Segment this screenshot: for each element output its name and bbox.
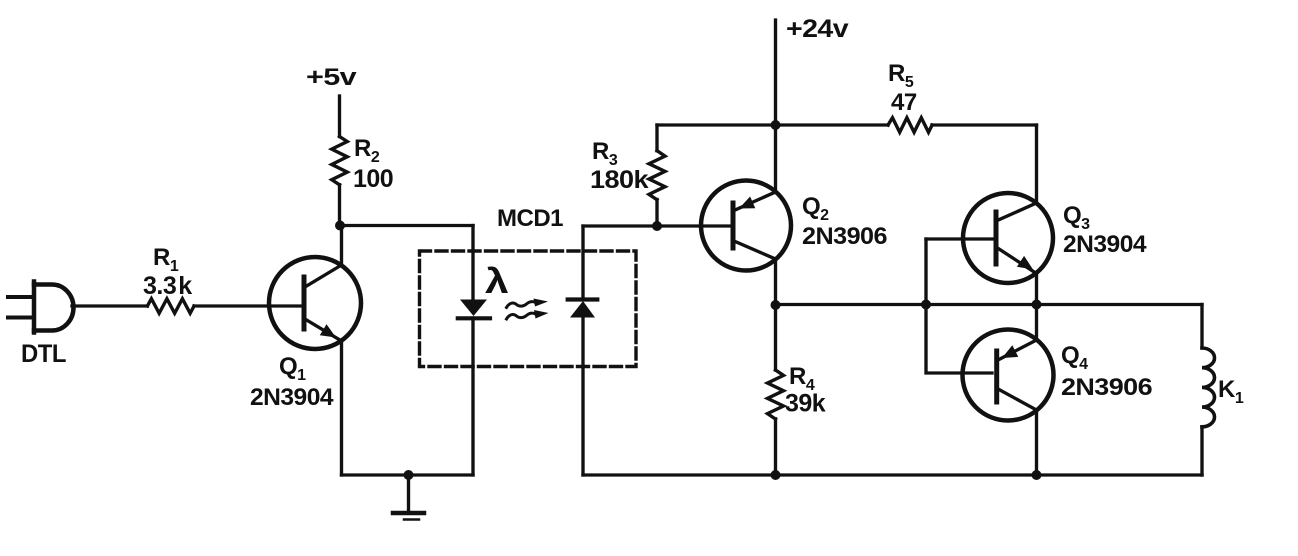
svg-text:2N3906: 2N3906 [802,223,887,250]
svg-text:Q2: Q2 [802,193,829,224]
svg-text:Q1: Q1 [279,353,306,384]
svg-text:R5: R5 [888,60,914,91]
svg-text:2N3906: 2N3906 [1061,374,1152,401]
svg-text:MCD1: MCD1 [497,205,563,232]
svg-text:3.3k: 3.3k [143,272,192,300]
svg-text:+24v: +24v [786,15,849,43]
svg-text:K1: K1 [1218,376,1244,407]
svg-text:2N3904: 2N3904 [1063,231,1147,258]
svg-text:λ: λ [485,262,508,301]
svg-text:R1: R1 [153,244,179,275]
svg-text:39k: 39k [785,390,826,418]
svg-text:Q3: Q3 [1063,202,1090,233]
svg-text:R3: R3 [592,138,618,169]
svg-text:DTL: DTL [21,340,66,368]
svg-text:R2: R2 [354,135,380,166]
svg-text:100: 100 [353,165,393,193]
svg-text:2N3904: 2N3904 [250,384,334,411]
svg-text:47: 47 [891,89,917,116]
svg-text:+5v: +5v [306,64,357,91]
svg-text:180k: 180k [590,166,649,194]
svg-text:Q4: Q4 [1061,342,1088,373]
